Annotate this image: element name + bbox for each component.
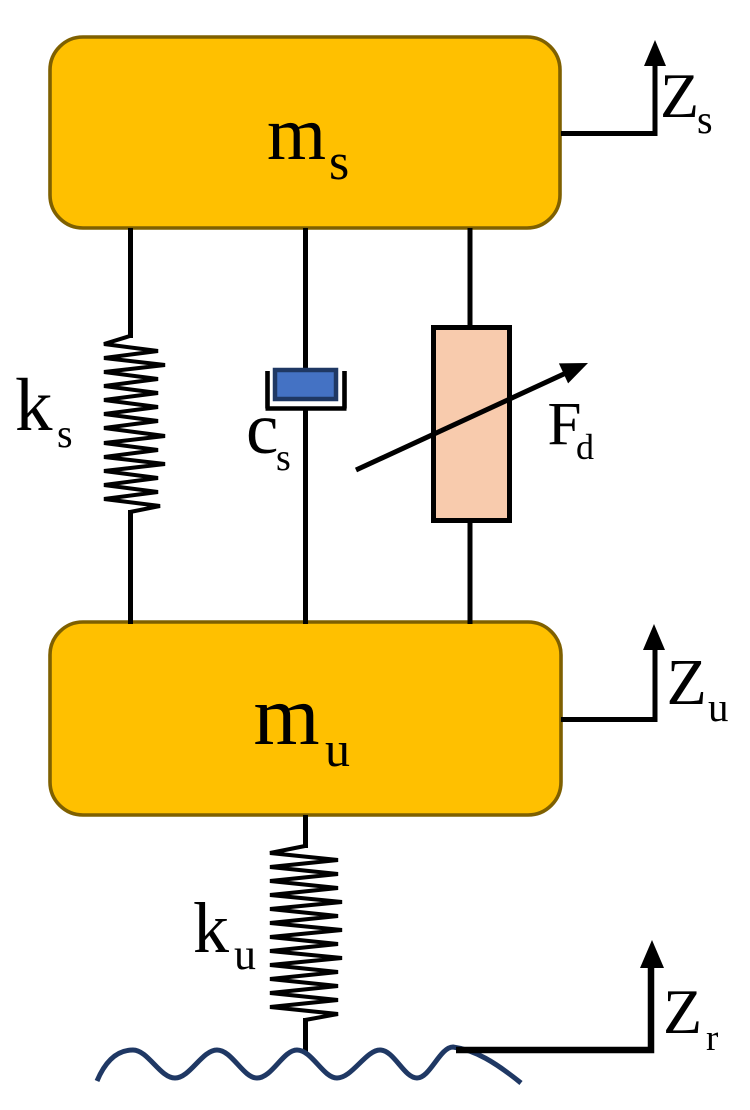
svg-text:u: u bbox=[234, 930, 256, 979]
wire: lower rod of spring k_s bbox=[128, 510, 133, 624]
svg-text:u: u bbox=[325, 721, 350, 777]
axis marker Z_s bbox=[561, 62, 655, 134]
wire: lower rod of damper c_s bbox=[303, 408, 308, 624]
variable damper F_d body bbox=[434, 328, 510, 521]
svg-text:s: s bbox=[276, 437, 291, 479]
axis marker Z_u bbox=[561, 647, 655, 720]
svg-text:s: s bbox=[57, 411, 73, 456]
svg-text:k: k bbox=[15, 364, 53, 447]
damper piston c_s bbox=[275, 370, 336, 399]
sprung mass box m_s bbox=[50, 37, 560, 228]
variable damper arrow F_d bbox=[356, 373, 566, 470]
svg-text:Z: Z bbox=[660, 60, 699, 131]
damper cup c_s bbox=[266, 371, 347, 409]
svg-text:s: s bbox=[697, 97, 713, 142]
svg-text:Z: Z bbox=[663, 976, 702, 1047]
wire: upper rod of spring k_s bbox=[128, 228, 133, 338]
spring k_s bbox=[104, 336, 165, 512]
wire: upper rod of spring k_u bbox=[303, 815, 308, 848]
wire: upper rod of damper F_d bbox=[468, 228, 473, 330]
svg-text:u: u bbox=[708, 684, 729, 730]
svg-text:Z: Z bbox=[667, 646, 707, 719]
svg-text:k: k bbox=[193, 888, 229, 968]
svg-text:r: r bbox=[706, 1018, 718, 1059]
svg-text:d: d bbox=[576, 427, 594, 467]
svg-text:c: c bbox=[246, 388, 278, 469]
svg-text:m: m bbox=[267, 92, 326, 176]
unsprung mass box m_u bbox=[50, 622, 561, 815]
svg-text:s: s bbox=[329, 134, 349, 191]
spring k_u bbox=[270, 846, 342, 1020]
wire: upper rod of damper c_s bbox=[303, 228, 308, 370]
wire: lower rod of spring k_u bbox=[303, 1018, 308, 1052]
axis marker Z_r bbox=[456, 964, 651, 1050]
wire: lower rod of damper F_d bbox=[468, 519, 473, 624]
svg-text:m: m bbox=[254, 669, 320, 763]
road profile bbox=[97, 1047, 521, 1083]
